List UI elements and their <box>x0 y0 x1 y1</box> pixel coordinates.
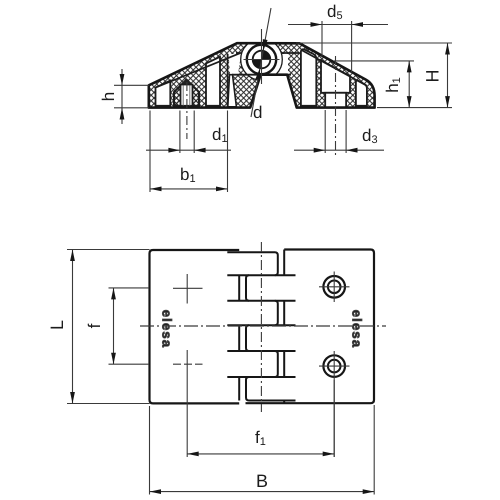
svg-text:elesa: elesa <box>350 310 365 349</box>
svg-text:L: L <box>47 320 67 330</box>
svg-text:H: H <box>423 70 443 83</box>
svg-text:h: h <box>99 92 118 101</box>
svg-text:elesa: elesa <box>160 310 175 349</box>
svg-text:f: f <box>85 323 104 328</box>
svg-text:B: B <box>256 471 268 491</box>
svg-text:d: d <box>253 103 262 122</box>
